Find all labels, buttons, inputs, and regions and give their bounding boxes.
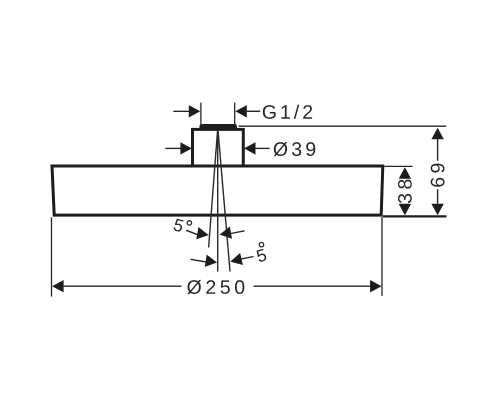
G1/2 dimension right leader [247, 110, 260, 112]
69 arrow up [431, 128, 443, 140]
lower 5deg arrow toward centre line [205, 255, 218, 269]
upper 5deg label digit [173, 218, 184, 232]
D39 arrow right (points left) [244, 142, 256, 154]
bottom right extension line (disc underside) [383, 215, 447, 217]
lower 5deg left tail [191, 259, 206, 262]
label 38 (rotated) [398, 180, 412, 204]
D250 extension line left [51, 217, 53, 296]
69 top extension line (from cap) [239, 125, 447, 127]
spray centre line [217, 130, 219, 272]
38 top extension line [385, 165, 413, 167]
D39 arrow left (points right) [180, 142, 192, 154]
69 shaft upper [437, 139, 439, 161]
lower 5deg leader to label [242, 257, 254, 259]
lower 5deg arrow toward right spray line [229, 253, 243, 268]
G1/2 arrow left (points right) [189, 105, 201, 117]
lower 5deg degree circle [259, 243, 263, 247]
D250 dimension line left segment [64, 285, 182, 287]
D250 extension line right [381, 217, 383, 296]
label D39 [274, 142, 316, 156]
69 shaft lower [437, 189, 439, 204]
lower 5deg label digit [256, 249, 267, 263]
connector block (39mm) [193, 129, 244, 166]
label 69 (rotated) [431, 164, 445, 187]
38 arrow down [399, 204, 411, 216]
spray line left (5 deg) [209, 130, 218, 248]
D39 dimension right leader [256, 147, 270, 149]
G1/2 dimension left leader [173, 110, 189, 112]
upper 5deg label leader [186, 230, 198, 235]
G1/2 extension line left [200, 103, 202, 125]
69 arrow down [431, 204, 443, 216]
label D250 [187, 280, 244, 294]
top cap flange (filled) [199, 124, 237, 129]
38 arrow up [399, 167, 411, 179]
upper 5deg arrow toward centre line [219, 226, 232, 240]
D250 arrow right (points right) [370, 280, 382, 292]
upper 5deg right tail [231, 231, 245, 234]
shower plate disc body [52, 166, 383, 215]
upper 5deg degree circle [187, 221, 191, 225]
D250 dimension line right segment [254, 285, 371, 287]
upper 5deg arrow toward left spray line [196, 227, 209, 241]
D39 dimension left leader [165, 147, 180, 149]
D250 arrow left (points left) [52, 280, 64, 292]
spray line right (5 deg) [218, 130, 230, 272]
G1/2 arrow right (points left) [235, 105, 247, 117]
label G1/2 [263, 105, 312, 119]
G1/2 extension line right [234, 103, 236, 125]
